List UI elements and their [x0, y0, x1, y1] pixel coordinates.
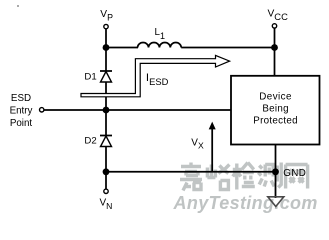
wire VCC junction to box top [274, 48, 276, 77]
wire VP junction to D1 [105, 48, 107, 72]
char jia [180, 163, 202, 191]
char jian [233, 163, 255, 190]
svg-text:Point: Point [10, 118, 33, 129]
box device being protected [231, 76, 320, 145]
junction entry [103, 107, 110, 114]
wire box bottom to GND junction [275, 145, 277, 173]
junction bottom [103, 168, 110, 175]
junction VP rail [103, 44, 110, 51]
junction VCC rail [271, 44, 278, 51]
wire entry junction to D2 [105, 110, 107, 136]
IESD hollow arrow [81, 55, 230, 96]
inductor L1 [138, 42, 182, 47]
wire bottom junction to VN [105, 172, 107, 189]
svg-text:VX: VX [191, 138, 204, 151]
svg-text:AnyTesting.com: AnyTesting.com [173, 193, 318, 213]
svg-text:Being: Being [262, 103, 289, 114]
junction GND [272, 168, 279, 175]
terminal ESD entry [40, 108, 44, 112]
wire D1 to entry junction [105, 82, 107, 110]
wire top rail right [181, 47, 275, 49]
watermark 嘉峪检测网 (vector strokes) [180, 163, 308, 191]
wire D2 to bottom junction [105, 147, 107, 173]
svg-text:Device: Device [259, 91, 292, 102]
arrow VX [209, 122, 216, 172]
svg-text:D2: D2 [84, 136, 96, 147]
wire GND stub [275, 172, 277, 198]
svg-text:Entry: Entry [10, 105, 33, 116]
svg-text:GND: GND [283, 168, 306, 179]
char wang [286, 165, 308, 189]
diode D1 [100, 71, 112, 82]
wire VCC to rail [274, 28, 276, 48]
terminal VCC [272, 24, 276, 28]
terminal VN [104, 189, 108, 193]
wire entry to box [44, 109, 231, 111]
svg-text:D1: D1 [84, 72, 96, 83]
wire VP to rail [105, 29, 107, 48]
terminal VP [104, 24, 108, 28]
speck [17, 5, 19, 7]
svg-text:ESD: ESD [11, 93, 31, 104]
ground [268, 197, 284, 207]
char yu [207, 165, 229, 190]
wire top rail left [106, 47, 138, 49]
wire bottom rail [106, 171, 276, 173]
svg-text:Protected: Protected [253, 115, 298, 126]
diode D2 [100, 136, 112, 147]
char ce [258, 163, 281, 188]
